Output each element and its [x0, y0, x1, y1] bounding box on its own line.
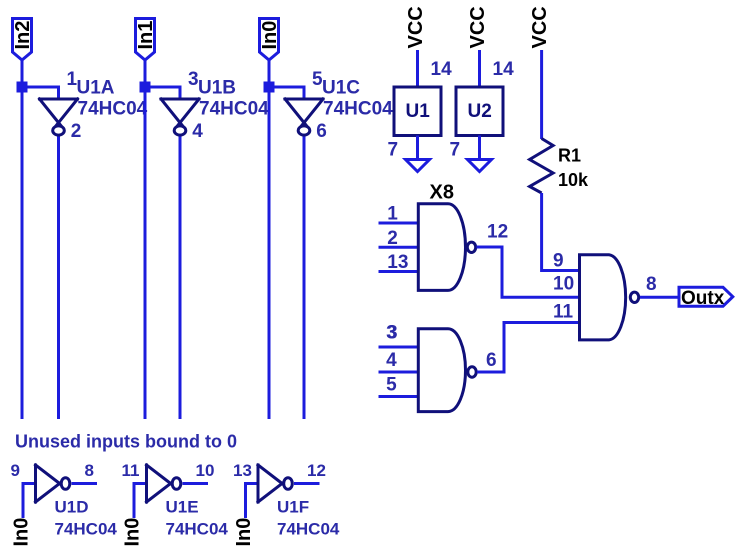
wire net In0 vertical [268, 60, 271, 419]
svg-text:VCC: VCC [405, 6, 427, 48]
svg-text:10: 10 [196, 461, 215, 480]
svg-text:11: 11 [553, 302, 574, 323]
svg-text:2: 2 [71, 121, 82, 142]
wire pin 3 stub of lower nand [379, 346, 419, 349]
wire lower nand output to U3 pin 11 [477, 323, 580, 373]
svg-text:6: 6 [486, 350, 497, 371]
wire U1C output vertical [303, 137, 306, 420]
power box U2 [456, 87, 503, 136]
svg-text:U1F: U1F [277, 498, 309, 517]
wire pin 13 stub of X8 [379, 270, 419, 273]
svg-text:14: 14 [431, 59, 453, 80]
svg-text:U1E: U1E [166, 498, 199, 517]
svg-text:13: 13 [387, 252, 408, 273]
inverter U1D output bubble [61, 478, 70, 490]
wire pin 4 stub of lower nand [379, 371, 419, 374]
port In0 [260, 19, 279, 61]
port In2 [13, 19, 32, 61]
wire In0 to U1D input [23, 484, 36, 519]
svg-text:In0: In0 [122, 518, 144, 547]
svg-text:In0: In0 [233, 518, 255, 547]
inverter U1B 74HC04 [161, 99, 199, 127]
svg-text:9: 9 [11, 461, 20, 480]
svg-text:12: 12 [487, 222, 508, 243]
wire X8 output to U3 pin 10 [477, 247, 580, 297]
wire U1 pin 7 to ground [416, 136, 419, 164]
svg-text:X8: X8 [430, 182, 454, 204]
wire R1 to U3 pin 9 [542, 193, 580, 271]
svg-text:In2: In2 [12, 21, 34, 50]
nand output bubble [630, 292, 638, 302]
inverter U1B output bubble [174, 126, 186, 135]
svg-text:U1B: U1B [198, 78, 236, 99]
wire pin 1 stub of X8 [379, 222, 419, 225]
power box U1 [394, 87, 441, 136]
svg-text:8: 8 [646, 274, 657, 295]
svg-text:Outx: Outx [681, 288, 725, 309]
wire to U1C input [269, 87, 304, 98]
svg-text:In0: In0 [11, 518, 33, 547]
wire U1A output vertical [57, 137, 60, 420]
ground symbol under U2 [468, 160, 492, 172]
svg-text:74HC04: 74HC04 [277, 520, 340, 539]
svg-text:14: 14 [493, 59, 515, 80]
wire U1F output [294, 482, 320, 485]
wire In0 to U1F input [246, 484, 259, 519]
nand gate lower [418, 329, 465, 412]
svg-text:2: 2 [387, 228, 398, 249]
wire U2 pin 7 to ground [478, 136, 481, 164]
svg-text:9: 9 [553, 251, 564, 272]
svg-text:R1: R1 [558, 146, 581, 166]
svg-text:6: 6 [316, 121, 327, 142]
inverter U1E 74HC04 [147, 465, 175, 502]
wire VCC to R1 [540, 50, 543, 139]
svg-text:VCC: VCC [529, 6, 551, 48]
svg-text:In0: In0 [259, 21, 281, 50]
wire to U1A input [22, 87, 59, 98]
svg-text:8: 8 [85, 461, 94, 480]
wire U1E output [183, 482, 209, 485]
wire In0 to U1E input [134, 484, 147, 519]
junction node In2 [17, 82, 28, 93]
ground symbol under U1 [406, 160, 430, 172]
nand gate X8 [418, 204, 465, 291]
svg-text:10k: 10k [558, 170, 589, 190]
wire VCC to U2 pin 14 [478, 50, 481, 87]
wire VCC to U1 pin 14 [416, 50, 419, 87]
wire net In1 vertical [144, 60, 147, 419]
wire U1D output [72, 482, 98, 485]
svg-text:74HC04: 74HC04 [78, 99, 148, 120]
wire to Outx port [640, 296, 678, 299]
svg-text:U1A: U1A [77, 78, 115, 99]
wire to U1B input [145, 87, 180, 98]
nand lower output bubble [468, 367, 476, 377]
svg-text:74HC04: 74HC04 [323, 99, 393, 120]
svg-text:1: 1 [387, 204, 398, 225]
svg-text:4: 4 [386, 350, 397, 371]
inverter U1A output bubble [53, 126, 65, 135]
wire U1B output vertical [179, 137, 182, 420]
svg-text:Unused inputs bound to 0: Unused inputs bound to 0 [15, 432, 237, 452]
svg-text:74HC04: 74HC04 [55, 520, 118, 539]
svg-text:3: 3 [387, 323, 398, 344]
svg-text:74HC04: 74HC04 [199, 99, 269, 120]
svg-text:U2: U2 [468, 101, 492, 122]
svg-text:In1: In1 [135, 21, 157, 50]
svg-text:U1D: U1D [55, 498, 89, 517]
inverter U1D 74HC04 [36, 465, 64, 502]
svg-text:12: 12 [307, 461, 326, 480]
svg-text:10: 10 [553, 274, 574, 295]
wire net In2 vertical [21, 60, 24, 419]
nand gate output [580, 255, 626, 340]
inverter U1C 74HC04 [285, 99, 323, 127]
svg-text:U1: U1 [406, 101, 431, 122]
inverter U1F output bubble [284, 478, 293, 490]
svg-text:3: 3 [188, 69, 199, 90]
port In1 [136, 19, 155, 61]
svg-text:7: 7 [388, 140, 399, 161]
wire pin 5 stub of lower nand [379, 395, 419, 398]
junction node In1 [140, 82, 151, 93]
svg-text:4: 4 [192, 121, 203, 142]
svg-text:VCC: VCC [467, 6, 489, 48]
junction node In0 [264, 82, 275, 93]
inverter U1E output bubble [172, 478, 181, 490]
svg-text:U1C: U1C [322, 78, 360, 99]
svg-text:7: 7 [450, 140, 461, 161]
svg-text:74HC04: 74HC04 [166, 520, 229, 539]
svg-text:5: 5 [386, 375, 397, 396]
inverter U1F 74HC04 [258, 465, 286, 502]
svg-text:11: 11 [122, 461, 140, 480]
svg-text:13: 13 [233, 461, 252, 480]
inverter U1A 74HC04 [40, 99, 78, 127]
nand X8 output bubble [467, 242, 475, 252]
inverter U1C output bubble [298, 126, 310, 135]
resistor R1 [530, 139, 554, 194]
wire pin 2 stub of X8 [379, 246, 419, 249]
port Outx [679, 287, 733, 306]
